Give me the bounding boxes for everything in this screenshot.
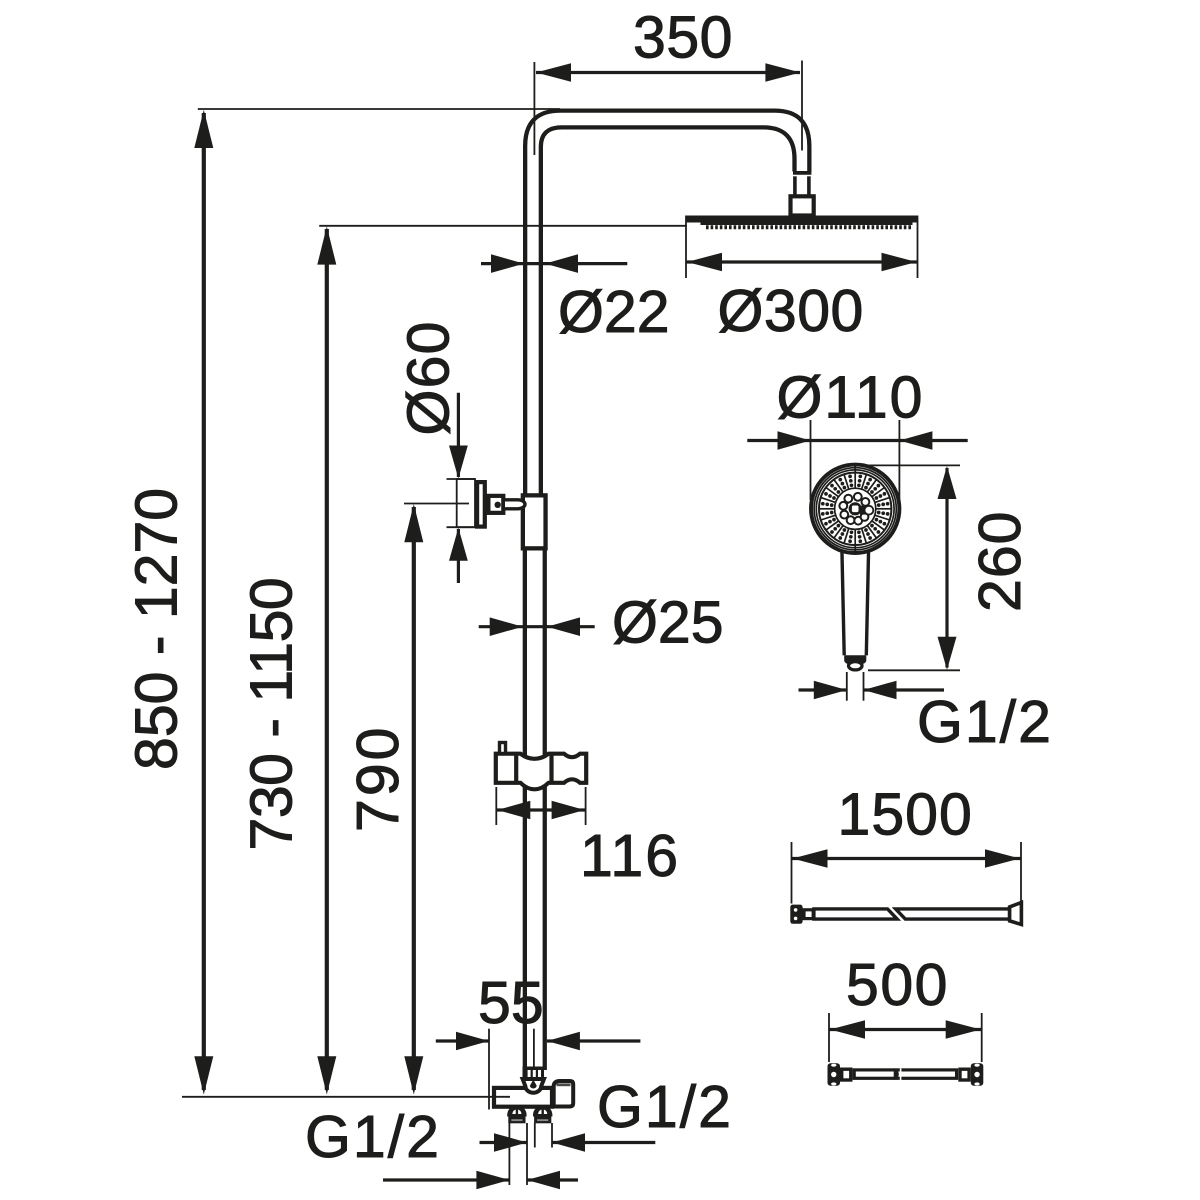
valve funnel drop (530, 1080, 537, 1089)
svg-text:Ø25: Ø25 (612, 590, 724, 656)
hand shower hub (849, 502, 862, 515)
column sleeve (523, 495, 546, 548)
svg-text:116: 116 (580, 823, 680, 889)
slider pin (500, 743, 506, 754)
baseline inside valve (493, 1096, 510, 1098)
dim diameter 25 (479, 617, 595, 636)
svg-text:1500: 1500 (838, 782, 973, 848)
svg-text:790: 790 (345, 725, 411, 832)
shower head nozzles (706, 225, 911, 229)
dim outlets lower (383, 1171, 578, 1190)
svg-text:G1/2: G1/2 (597, 1074, 733, 1140)
dim diameter 110 (747, 420, 967, 500)
shower head plate (686, 216, 918, 226)
wire shower arm outer (525, 111, 809, 495)
hose collar (804, 910, 813, 919)
arm narrow segment (795, 176, 809, 196)
valve right block shading (557, 1083, 571, 1086)
dim 350 (534, 61, 802, 156)
dim 730-1150 (317, 226, 336, 1094)
dim diameter 60 (447, 393, 476, 583)
svg-text:55: 55 (478, 970, 544, 1036)
svg-text:500: 500 (846, 952, 949, 1018)
valve nut (523, 1067, 545, 1080)
hand shower handle (842, 549, 869, 670)
dim 116 (496, 787, 585, 825)
hand shower face rings (811, 465, 899, 553)
dim 850-1270 (194, 110, 213, 1095)
column lower tube (525, 551, 545, 1071)
svg-text:Ø110: Ø110 (777, 365, 925, 431)
bar right plate (971, 1063, 984, 1086)
hose tube right segment (896, 909, 1010, 919)
svg-text:G1/2: G1/2 (305, 1104, 441, 1170)
svg-text:Ø60: Ø60 (396, 320, 462, 435)
hose right cone (1010, 903, 1022, 925)
svg-text:Ø22: Ø22 (558, 279, 670, 345)
bar tube (854, 1070, 956, 1078)
dim outlets upper (480, 1123, 656, 1185)
dim handle G1/2 (799, 672, 945, 701)
valve centerline (533, 1029, 535, 1068)
diverter cylinder (505, 500, 525, 509)
svg-text:Ø300: Ø300 (718, 278, 864, 344)
diverter stem block (488, 496, 503, 513)
hose left nut (790, 905, 802, 924)
svg-text:260: 260 (967, 511, 1033, 612)
diverter stem dot (495, 502, 501, 508)
bar right arm (960, 1069, 969, 1080)
valve funnel (523, 1079, 544, 1093)
hand shower rosette circles (839, 493, 869, 525)
baseline bottom (182, 1096, 510, 1098)
bar left arm (842, 1069, 851, 1080)
hose tube left segment (814, 909, 897, 919)
arm nut (791, 196, 814, 215)
dim 1500 (792, 842, 1022, 904)
arm joint line (793, 171, 811, 175)
svg-text:850 - 1270: 850 - 1270 (124, 488, 190, 770)
outlet left (507, 1105, 526, 1123)
dim 790 (404, 504, 469, 1095)
valve body (494, 1088, 552, 1107)
svg-text:350: 350 (633, 5, 733, 71)
extension line shower plate level (730-1150) (319, 225, 687, 227)
slider divider right (549, 754, 553, 783)
hand shower mode button (860, 506, 873, 515)
dim 500 (829, 1013, 982, 1062)
svg-text:G1/2: G1/2 (917, 689, 1053, 755)
slider bracket (496, 754, 586, 790)
dim diameter 22 (481, 254, 627, 273)
dim 55 (436, 1029, 641, 1110)
bar left plate (828, 1063, 841, 1086)
bar center joint (894, 1068, 901, 1080)
svg-text:730 - 1150: 730 - 1150 (239, 578, 305, 851)
extension line top (850-1270 level) (198, 108, 560, 110)
hand shower spray sectors (819, 465, 891, 553)
diverter knob body (457, 479, 475, 527)
hand shower spray dots (821, 475, 890, 544)
wire shower arm inner (541, 127, 795, 495)
diverter knob face ring (477, 482, 485, 526)
dim 260 (855, 465, 960, 670)
valve right block (554, 1081, 574, 1107)
outlet right (533, 1105, 552, 1123)
slider divider left (514, 754, 518, 783)
dim diameter 300 (686, 216, 918, 279)
